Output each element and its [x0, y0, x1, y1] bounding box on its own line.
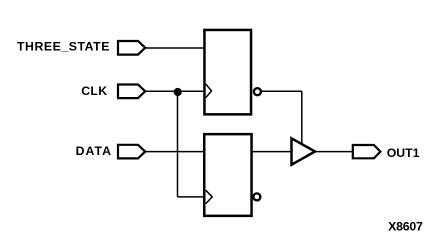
tri-state buffer U3 — [292, 138, 316, 164]
wire buffer output to OUT1 port — [316, 151, 353, 153]
svg-text:THREE_STATE: THREE_STATE — [17, 39, 110, 53]
wire CLK branch down — [177, 92, 179, 197]
wire upper QB to enable (horizontal) — [262, 90, 302, 92]
clock triangle of lower flip-flop — [206, 190, 212, 203]
svg-text:X8607: X8607 — [388, 219, 423, 233]
inverting bubble on lower flip-flop QB output — [253, 193, 260, 200]
svg-text:OUT1: OUT1 — [387, 146, 420, 160]
wire enable (vertical down to buffer) — [301, 91, 303, 143]
input port CLK — [118, 85, 145, 99]
wire CLK branch to lower flip-flop clock — [178, 196, 205, 198]
clock triangle of upper flip-flop — [206, 84, 212, 98]
input port DATA — [118, 145, 145, 159]
flip-flop U1 (upper) body — [204, 30, 251, 114]
junction dot on CLK net — [174, 88, 182, 96]
output port OUT1 — [353, 145, 381, 158]
wire DATA to lower flip-flop D — [146, 151, 205, 153]
inverting bubble on upper flip-flop QB output — [254, 88, 261, 95]
wire lower Q to buffer input — [252, 151, 292, 153]
wire THREE_STATE to upper flip-flop D — [146, 47, 205, 49]
input port THREE_STATE — [118, 41, 145, 55]
flip-flop U2 (lower) body — [204, 134, 251, 216]
svg-text:DATA: DATA — [76, 144, 112, 158]
wire CLK to upper flip-flop clock — [146, 90, 205, 92]
svg-text:CLK: CLK — [81, 84, 107, 98]
